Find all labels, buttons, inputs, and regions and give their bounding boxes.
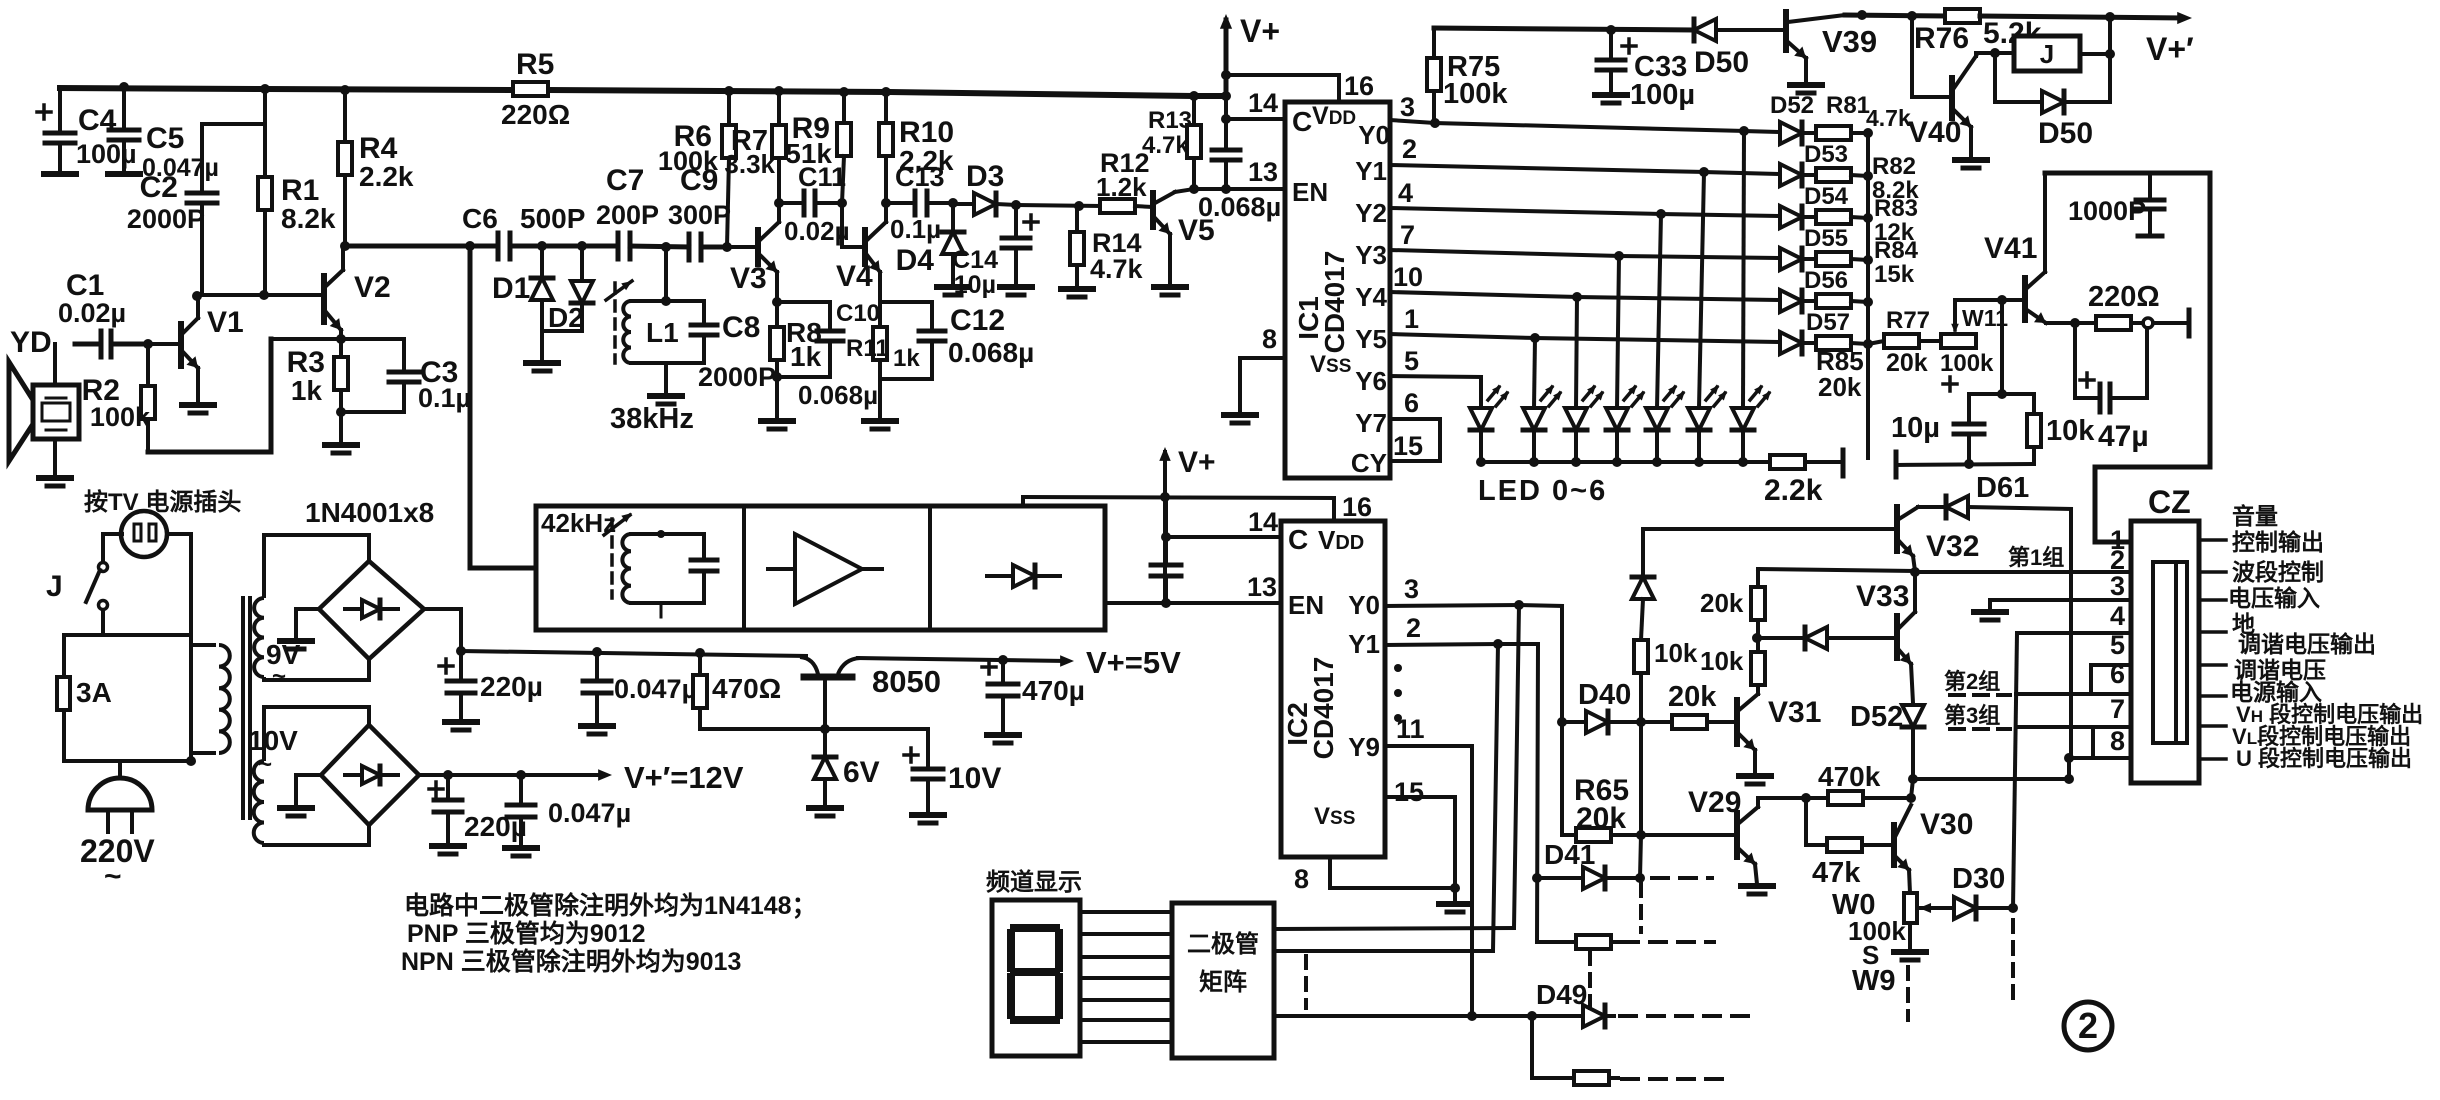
transistor V40 (1912, 16, 1952, 97)
transistor V2 (321, 276, 327, 322)
resistor R4 (343, 90, 347, 142)
svg-text:V3: V3 (730, 262, 767, 295)
resistor 47k (1804, 798, 1808, 845)
svg-text:100µ: 100µ (76, 139, 137, 169)
svg-text:Y0: Y0 (1358, 120, 1390, 150)
resistor R77 (1866, 344, 1870, 458)
5V regulator rail (461, 651, 806, 656)
wire rail to R1 and C2 branch (263, 89, 267, 177)
IC2 pin8 Vss ground (1330, 857, 1455, 888)
svg-text:200P: 200P (596, 200, 659, 230)
svg-text:8.2k: 8.2k (281, 203, 336, 234)
capacitor C1 (99, 331, 104, 357)
resistor 220Ω at V41 emitter (2070, 318, 2080, 328)
transistor V5 (1150, 193, 1156, 227)
row resistor below D41 (1537, 940, 1576, 944)
resistor R9 (839, 87, 849, 97)
resistor R10 (881, 87, 891, 97)
transistor V32 (1643, 527, 1897, 531)
svg-text:13: 13 (1248, 157, 1278, 187)
switch J (103, 532, 122, 536)
svg-text:Y1: Y1 (1355, 156, 1387, 186)
diode D1 (540, 246, 544, 278)
wire group1 row to CZ pin2 (1915, 570, 2131, 574)
svg-text:16: 16 (1342, 492, 1372, 522)
svg-text:20k: 20k (1576, 802, 1626, 835)
svg-text:470k: 470k (1818, 761, 1881, 792)
svg-text:Y3: Y3 (1355, 240, 1387, 270)
svg-text:R11: R11 (846, 335, 889, 362)
capacitor C9 (687, 234, 692, 260)
svg-text:V29: V29 (1688, 786, 1741, 819)
CZ pin6 wire group2 (2016, 692, 2131, 696)
capacitor C4 (37, 110, 51, 114)
svg-text:波段控制: 波段控制 (2232, 559, 2324, 585)
resistor R7 (774, 86, 784, 96)
wire pin14 C of IC1 (1221, 114, 1231, 124)
svg-text:D56: D56 (1804, 267, 1848, 294)
resistor 20k to V31 base (1672, 715, 1707, 729)
resistor 20k upper (1751, 587, 1765, 620)
svg-text:2000P: 2000P (698, 362, 776, 392)
svg-text:CY: CY (1351, 448, 1387, 478)
top right rail from R75 to D50 (1434, 28, 1693, 30)
svg-text:47k: 47k (1812, 857, 1861, 889)
CZ connector box (2131, 521, 2199, 783)
svg-text:R82: R82 (1872, 153, 1916, 180)
capacitor C6 (496, 233, 501, 259)
42kHz block box (536, 506, 1105, 630)
svg-text:R83: R83 (1874, 195, 1918, 222)
wire plug to bottom (167, 532, 191, 536)
wire to pin8 bus (1913, 777, 2069, 781)
svg-text:Y5: Y5 (1355, 324, 1387, 354)
svg-text:20k: 20k (1886, 349, 1928, 377)
svg-text:R5: R5 (516, 48, 554, 81)
resistor R85 (1816, 336, 1851, 350)
LED2 with column from Y4 (1576, 297, 1577, 408)
resistor R84 (1816, 252, 1851, 266)
svg-text:0.047µ: 0.047µ (614, 674, 697, 704)
wire 20k top to V32 emitter junction (1758, 569, 1915, 571)
svg-text:10: 10 (1393, 262, 1423, 292)
TV plug (121, 511, 167, 557)
LED bottom rail (1481, 460, 1768, 464)
diode D50 freewheel at relay (1993, 53, 1997, 102)
base row to 6V and 10V (700, 727, 928, 731)
diode D52 row Y0 (1780, 122, 1802, 144)
svg-text:V39: V39 (1822, 24, 1877, 59)
diode D61 (1918, 505, 1946, 509)
svg-text:470µ: 470µ (1022, 675, 1085, 706)
tank L1 C8 38kHz (664, 247, 668, 301)
svg-text:C13: C13 (895, 162, 945, 192)
node V1 base / R2 / C1 (143, 339, 153, 349)
diode D52 below V33 (1902, 705, 1924, 727)
node D1 (537, 241, 547, 251)
svg-text:20k: 20k (1818, 372, 1862, 402)
svg-text:D52: D52 (1850, 701, 1903, 733)
resistor 2.2k LED rail (1770, 455, 1805, 469)
svg-text:3.3k: 3.3k (724, 149, 775, 179)
svg-text:D1: D1 (492, 272, 530, 305)
svg-text:W9: W9 (1852, 965, 1896, 997)
svg-text:7: 7 (2110, 694, 2125, 724)
svg-text:V32: V32 (1926, 530, 1979, 563)
resistor R75 (1432, 28, 1436, 58)
IC2 internal dots (1394, 664, 1402, 672)
resistor R83 (1816, 210, 1851, 224)
svg-text:0.047µ: 0.047µ (548, 798, 631, 828)
svg-text:4.7k: 4.7k (1142, 132, 1189, 159)
svg-text:220µ: 220µ (480, 671, 543, 702)
svg-text:D50: D50 (1694, 46, 1749, 79)
transistor V31 (1734, 700, 1740, 744)
svg-text:8: 8 (1262, 324, 1277, 354)
svg-text:D40: D40 (1578, 679, 1631, 711)
transformer secondary 10V (264, 707, 369, 761)
svg-text:C2: C2 (140, 171, 178, 204)
svg-text:6: 6 (1404, 388, 1419, 418)
resistor R12 (1100, 199, 1135, 213)
svg-text:8: 8 (1294, 864, 1309, 894)
resistor 470k (1758, 796, 1828, 800)
diode D4 (948, 198, 958, 208)
transistor V41 (2000, 300, 2004, 394)
IC2 CD4017 box (1281, 521, 1385, 857)
svg-text:D2: D2 (548, 302, 584, 333)
svg-text:500P: 500P (520, 203, 585, 234)
resistor R1 (258, 177, 272, 210)
svg-text:10V: 10V (948, 762, 1001, 795)
svg-text:0.068µ: 0.068µ (1198, 192, 1281, 222)
V+ rail to IC2 pin16 (1023, 497, 1334, 498)
svg-text:13: 13 (1247, 572, 1277, 602)
transformer primary (191, 643, 214, 647)
resistor R65 row (1562, 833, 1576, 837)
diode D30 (1919, 903, 1931, 913)
transistor V33 (1913, 572, 1917, 612)
LED1 with column from Y5 (1534, 338, 1535, 408)
resistor R3 (339, 339, 343, 357)
svg-text:D53: D53 (1804, 141, 1848, 168)
wire D3 to R12 (1016, 205, 1100, 206)
amplifier triangle (795, 534, 862, 604)
svg-text:10µ: 10µ (954, 271, 996, 299)
column with zener and 10k to V32 base (1641, 529, 1645, 577)
potentiometer W11 (1919, 339, 1941, 343)
svg-text:1k: 1k (893, 345, 920, 372)
junction node rail/C5 (119, 82, 129, 92)
svg-text:4.7k: 4.7k (1090, 254, 1144, 284)
wire matrix row2 (1275, 949, 1493, 953)
svg-text:51k: 51k (785, 138, 832, 169)
resistor R14 (1075, 206, 1079, 232)
svg-text:38kHz: 38kHz (610, 403, 694, 435)
svg-text:1: 1 (1404, 304, 1419, 334)
svg-text:2.2k: 2.2k (1764, 474, 1823, 507)
resistor R82 (1816, 168, 1851, 182)
transistor V30 (1891, 825, 1897, 865)
diode D56 row Y4 (1780, 290, 1802, 312)
svg-text:C7: C7 (606, 164, 644, 197)
transistor V3 (755, 230, 761, 264)
svg-text:Y4: Y4 (1355, 282, 1387, 312)
bridge rectifier 2 (321, 725, 419, 825)
svg-text:220Ω: 220Ω (501, 99, 570, 130)
CZ pin8 wire (2069, 756, 2131, 760)
svg-text:2: 2 (2078, 1005, 2098, 1046)
svg-text:第1组: 第1组 (2008, 545, 2064, 570)
svg-text:2000P: 2000P (127, 204, 205, 234)
ground of V1 (182, 402, 214, 408)
CZ pin7 wire group3 (2017, 725, 2131, 729)
LED0 (1479, 377, 1483, 408)
page symbol 2 (2064, 1002, 2112, 1050)
svg-text:V4: V4 (836, 260, 873, 293)
svg-text:10k: 10k (2046, 415, 2095, 447)
svg-text:V41: V41 (1984, 232, 2037, 265)
svg-text:LED 0~6: LED 0~6 (1478, 475, 1607, 507)
svg-text:EN: EN (1288, 590, 1324, 620)
svg-text:C: C (1288, 524, 1308, 555)
svg-text:~: ~ (104, 860, 122, 893)
svg-text:4: 4 (1398, 178, 1413, 208)
svg-text:1000P: 1000P (2068, 196, 2146, 226)
svg-text:C14: C14 (952, 246, 998, 274)
svg-text:R81: R81 (1826, 92, 1870, 119)
svg-text:8: 8 (2110, 726, 2125, 756)
svg-text:10k: 10k (1654, 638, 1698, 668)
resistor 10k at V31 collector (1751, 652, 1765, 685)
diode matrix box (1172, 903, 1274, 1058)
ground of L1 (664, 363, 668, 394)
V+ arrow top (1224, 20, 1229, 96)
capacitor 220µ lower (429, 787, 443, 791)
svg-text:C12: C12 (950, 304, 1005, 337)
top supply rail (left section) (57, 88, 513, 90)
wire Y9 column to D49 row (1470, 746, 1474, 1016)
svg-text:100k: 100k (1940, 350, 1994, 377)
resistor 15k row Y4 (1816, 294, 1851, 308)
svg-text:C10: C10 (836, 300, 880, 327)
emitter row of V2 with R3 C3 (271, 337, 404, 341)
svg-text:0.02µ: 0.02µ (784, 216, 850, 246)
capacitor C2 (187, 191, 217, 196)
diode D3 (953, 202, 974, 206)
node L1 top (630, 246, 689, 247)
mains plug 220V (118, 761, 122, 793)
resistor R6 (724, 86, 734, 96)
diode D53 row Y1 (1780, 164, 1802, 186)
capacitor 470µ (982, 665, 996, 669)
svg-text:220Ω: 220Ω (2088, 281, 2160, 313)
svg-text:100µ: 100µ (1630, 79, 1695, 111)
potentiometer W0 (1904, 893, 1917, 923)
diode D2 (577, 241, 587, 251)
svg-text:R76: R76 (1914, 22, 1969, 55)
ground of R3 (325, 442, 357, 448)
svg-text:10µ: 10µ (1891, 412, 1940, 444)
svg-text:C5: C5 (146, 122, 184, 155)
capacitor C7 (512, 244, 618, 249)
ground of D1 D2 (542, 329, 582, 333)
svg-text:R13: R13 (1148, 107, 1192, 134)
svg-text:R77: R77 (1886, 307, 1930, 334)
transistor V39 (1783, 12, 1789, 50)
svg-text:CZ: CZ (2148, 484, 2191, 520)
svg-text:V1: V1 (207, 306, 244, 339)
feedback bottom wire (148, 450, 271, 455)
svg-text:6V: 6V (843, 756, 880, 789)
bridge rectifier 1 (319, 561, 424, 659)
resistor R5 (513, 82, 548, 96)
svg-text:PNP 三极管均为9012: PNP 三极管均为9012 (407, 919, 646, 948)
V+ arrow above IC2 (1163, 452, 1167, 603)
junction node rail/R4 (340, 85, 350, 95)
wire W11 tap to V41 base (1955, 300, 2002, 325)
resistor 470Ω (698, 653, 702, 675)
svg-text:8050: 8050 (872, 664, 941, 699)
svg-text:100k: 100k (1443, 78, 1508, 110)
svg-text:控制输出: 控制输出 (2232, 529, 2324, 555)
wires display to matrix (1080, 910, 1172, 914)
svg-text:11: 11 (1396, 714, 1425, 744)
svg-text:0.068µ: 0.068µ (948, 337, 1034, 368)
svg-text:~: ~ (272, 663, 286, 690)
svg-text:300P: 300P (668, 200, 731, 230)
capacitor 220µ upper (439, 664, 453, 668)
svg-text:Y1: Y1 (1348, 629, 1380, 659)
svg-text:100k: 100k (658, 146, 719, 176)
svg-text:20k: 20k (1668, 681, 1717, 713)
wire D61 down to CZ pin8 (2069, 509, 2073, 758)
svg-text:5: 5 (1404, 346, 1419, 376)
diode D50 at V39 base (1692, 19, 1697, 41)
IC1 Vss pin8 ground (1240, 358, 1285, 413)
transformer secondary 9V (254, 598, 264, 677)
svg-text:C8: C8 (722, 311, 760, 344)
svg-text:15k: 15k (1874, 261, 1915, 288)
svg-text:0.068µ: 0.068µ (798, 380, 878, 410)
svg-text:二极管: 二极管 (1187, 930, 1259, 958)
resistor R13 (1189, 91, 1199, 101)
diode D40 row (1557, 717, 1567, 727)
svg-text:V2: V2 (354, 271, 391, 304)
svg-text:Y2: Y2 (1355, 198, 1387, 228)
LED4 with column from Y2 (1657, 214, 1661, 408)
svg-text:第2组: 第2组 (1944, 669, 2000, 694)
LED3 with column from Y3 (1617, 256, 1619, 408)
svg-text:V+′: V+′ (2146, 31, 2194, 67)
dashed verticals in matrix area (1639, 884, 1643, 932)
wire Y1 branch to matrix row2 (1493, 644, 1498, 951)
svg-text:1k: 1k (291, 375, 323, 406)
svg-text:1N4001x8: 1N4001x8 (305, 497, 434, 528)
svg-text:V31: V31 (1768, 696, 1821, 729)
svg-text:D30: D30 (1952, 863, 2005, 895)
42kHz trimmer (610, 519, 614, 598)
svg-text:VSS: VSS (1310, 351, 1351, 378)
7-segment display box (992, 900, 1080, 1056)
diode D41 row (1532, 873, 1542, 883)
capacitor 1000P (2045, 171, 2210, 176)
svg-text:D61: D61 (1976, 472, 2029, 504)
wire EN pin13 of IC1 (1194, 187, 1285, 191)
svg-text:频道显示: 频道显示 (986, 868, 1082, 896)
svg-text:CD4017: CD4017 (1319, 251, 1350, 354)
digit 8 segments (1014, 924, 1056, 932)
transistor V4 (840, 203, 844, 247)
svg-text:3: 3 (2110, 571, 2125, 601)
capacitor 0.047µ lower (519, 775, 523, 803)
capacitor C14 electrolytic (1011, 200, 1021, 210)
fuse 3A loop (64, 635, 103, 677)
svg-text:J: J (2040, 39, 2054, 69)
svg-text:1.2k: 1.2k (1096, 172, 1147, 202)
top right V+ rail (1845, 15, 1945, 16)
svg-text:D54: D54 (1804, 183, 1849, 210)
svg-text:15: 15 (1393, 431, 1423, 461)
wire Y0 branch to R65 D40 (1560, 606, 1564, 835)
resistor R8 and capacitor C10 (775, 302, 779, 327)
ground of bridge 1 (296, 607, 319, 611)
relay J box (1976, 51, 2014, 55)
svg-text:0.1µ: 0.1µ (890, 214, 941, 244)
svg-text:3: 3 (1400, 92, 1415, 122)
svg-text:VSS: VSS (1314, 803, 1355, 830)
ground of bridge 2 (296, 773, 321, 777)
svg-text:音量: 音量 (2232, 503, 2278, 529)
svg-text:Y6: Y6 (1355, 366, 1387, 396)
wire Y0 branch to matrix row1 (1514, 605, 1519, 928)
wire EN pin13 of IC2 (1105, 601, 1281, 605)
svg-text:10V: 10V (248, 725, 298, 756)
svg-text:D41: D41 (1544, 839, 1595, 870)
wire input into 42kHz block (468, 246, 473, 568)
transistor V29 (1734, 813, 1740, 857)
capacitor 10µ with resistor 10k (1970, 392, 2034, 396)
svg-text:D4: D4 (896, 244, 935, 277)
svg-text:~: ~ (258, 751, 272, 778)
svg-text:2.2k: 2.2k (359, 161, 414, 192)
CZ right side label stubs (2199, 538, 2226, 542)
capacitor 47µ (2073, 323, 2077, 398)
junction node rail/R1 (260, 84, 270, 94)
detector diode in block (987, 574, 1013, 578)
svg-text:Y9: Y9 (1348, 732, 1380, 762)
capacitor 10V (904, 753, 918, 757)
resistor R11 and capacitor C12 (873, 327, 887, 360)
diode D55 row Y3 (1780, 248, 1802, 270)
resistor R2 (146, 344, 150, 386)
diode D54 row Y2 (1780, 206, 1802, 228)
right rail down to CZ pin1 (2095, 173, 2210, 542)
svg-text:电压输入: 电压输入 (2228, 585, 2320, 611)
diode D57 row Y5 (1780, 332, 1802, 354)
svg-text:1k: 1k (790, 341, 822, 372)
svg-text:V+: V+ (1178, 446, 1216, 479)
trimmer core of L1 (613, 283, 617, 363)
svg-text:矩阵: 矩阵 (1199, 968, 1247, 996)
wire pin14 of IC2 (1161, 532, 1171, 542)
capacitor C3 (402, 339, 406, 370)
diode D49 row (1275, 1014, 1583, 1018)
svg-text:L1: L1 (646, 317, 679, 348)
svg-text:C: C (1292, 106, 1312, 137)
zener 6V (823, 729, 827, 757)
svg-text:Y0: Y0 (1348, 590, 1380, 620)
